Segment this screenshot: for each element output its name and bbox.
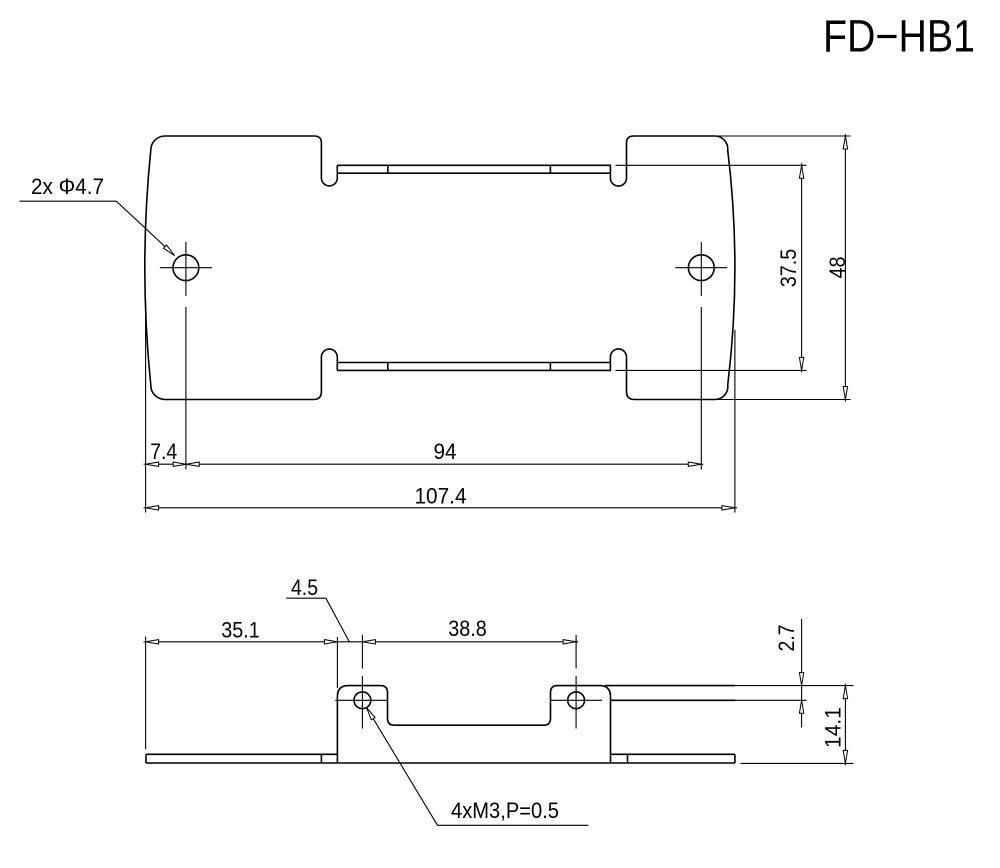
svg-text:7.4: 7.4 bbox=[150, 439, 177, 464]
svg-text:4xM3,P=0.5: 4xM3,P=0.5 bbox=[451, 798, 559, 823]
svg-text:38.8: 38.8 bbox=[448, 616, 487, 641]
svg-text:FD−HB1: FD−HB1 bbox=[823, 11, 975, 62]
svg-text:48: 48 bbox=[825, 257, 850, 279]
svg-text:2x Φ4.7: 2x Φ4.7 bbox=[31, 174, 104, 199]
svg-text:14.1: 14.1 bbox=[821, 707, 846, 748]
svg-text:94: 94 bbox=[434, 439, 457, 464]
svg-text:107.4: 107.4 bbox=[415, 484, 467, 509]
svg-text:37.5: 37.5 bbox=[776, 249, 801, 288]
svg-text:2.7: 2.7 bbox=[774, 625, 799, 652]
svg-text:4.5: 4.5 bbox=[291, 575, 318, 600]
svg-text:35.1: 35.1 bbox=[221, 618, 260, 643]
